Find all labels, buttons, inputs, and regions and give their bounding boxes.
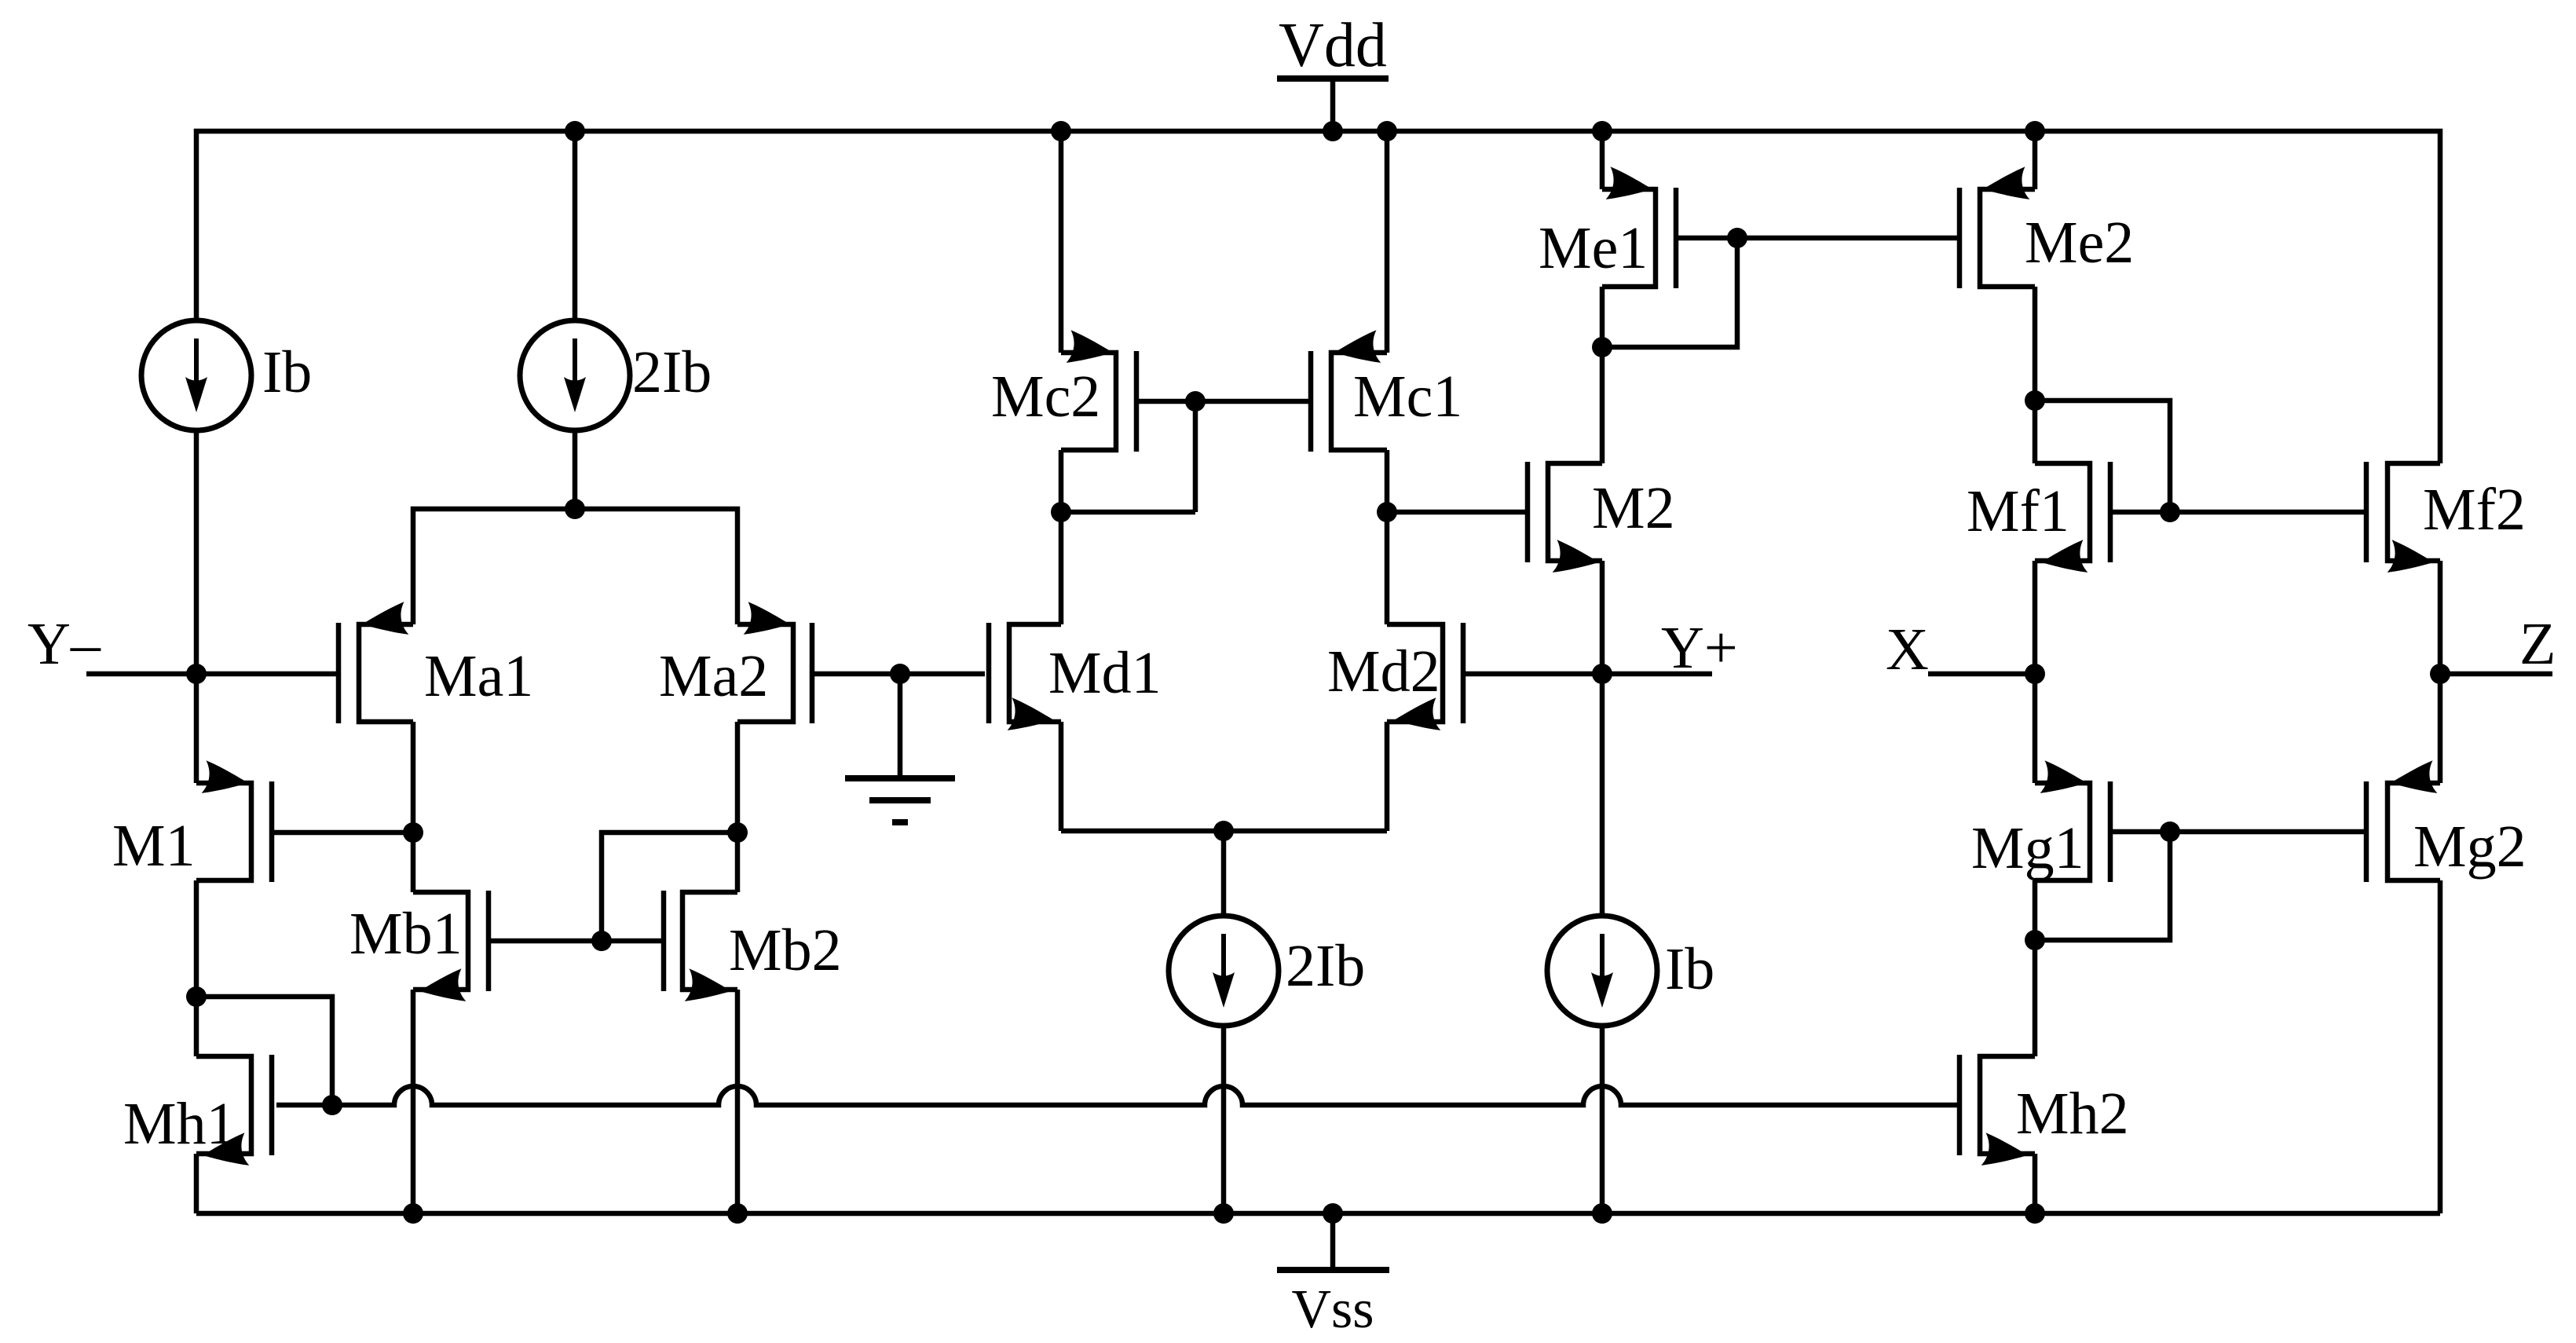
svg-text:M2: M2 <box>1592 475 1675 541</box>
svg-text:M1: M1 <box>112 813 196 879</box>
svg-text:Mc2: Mc2 <box>991 364 1100 430</box>
svg-text:Mg2: Mg2 <box>2413 814 2527 880</box>
svg-text:Ib: Ib <box>1665 936 1714 1002</box>
svg-text:Md2: Md2 <box>1327 639 1440 704</box>
svg-text:Ma1: Ma1 <box>424 643 533 709</box>
svg-text:Mh2: Mh2 <box>2016 1081 2129 1147</box>
svg-text:2Ib: 2Ib <box>632 339 712 405</box>
svg-text:Me1: Me1 <box>1539 215 1648 281</box>
svg-text:Vss: Vss <box>1291 1279 1374 1340</box>
svg-text:Mg1: Mg1 <box>1971 815 2084 881</box>
svg-text:Y+: Y+ <box>1661 615 1738 681</box>
svg-text:Ma2: Ma2 <box>659 643 768 709</box>
svg-text:Mf1: Mf1 <box>1967 478 2069 544</box>
svg-text:Mb2: Mb2 <box>729 917 842 983</box>
svg-text:X: X <box>1886 617 1929 682</box>
svg-text:2Ib: 2Ib <box>1286 933 1365 999</box>
svg-text:Mf2: Mf2 <box>2423 477 2526 543</box>
svg-text:Mb1: Mb1 <box>349 901 463 967</box>
svg-text:Md1: Md1 <box>1048 640 1162 706</box>
svg-text:Me2: Me2 <box>2025 210 2134 276</box>
svg-text:Mc1: Mc1 <box>1353 364 1462 430</box>
svg-text:Mh1: Mh1 <box>123 1091 236 1157</box>
svg-text:Z: Z <box>2519 611 2556 677</box>
svg-text:Ib: Ib <box>262 339 312 405</box>
svg-text:Y–: Y– <box>27 611 101 677</box>
svg-text:Vdd: Vdd <box>1279 11 1387 80</box>
